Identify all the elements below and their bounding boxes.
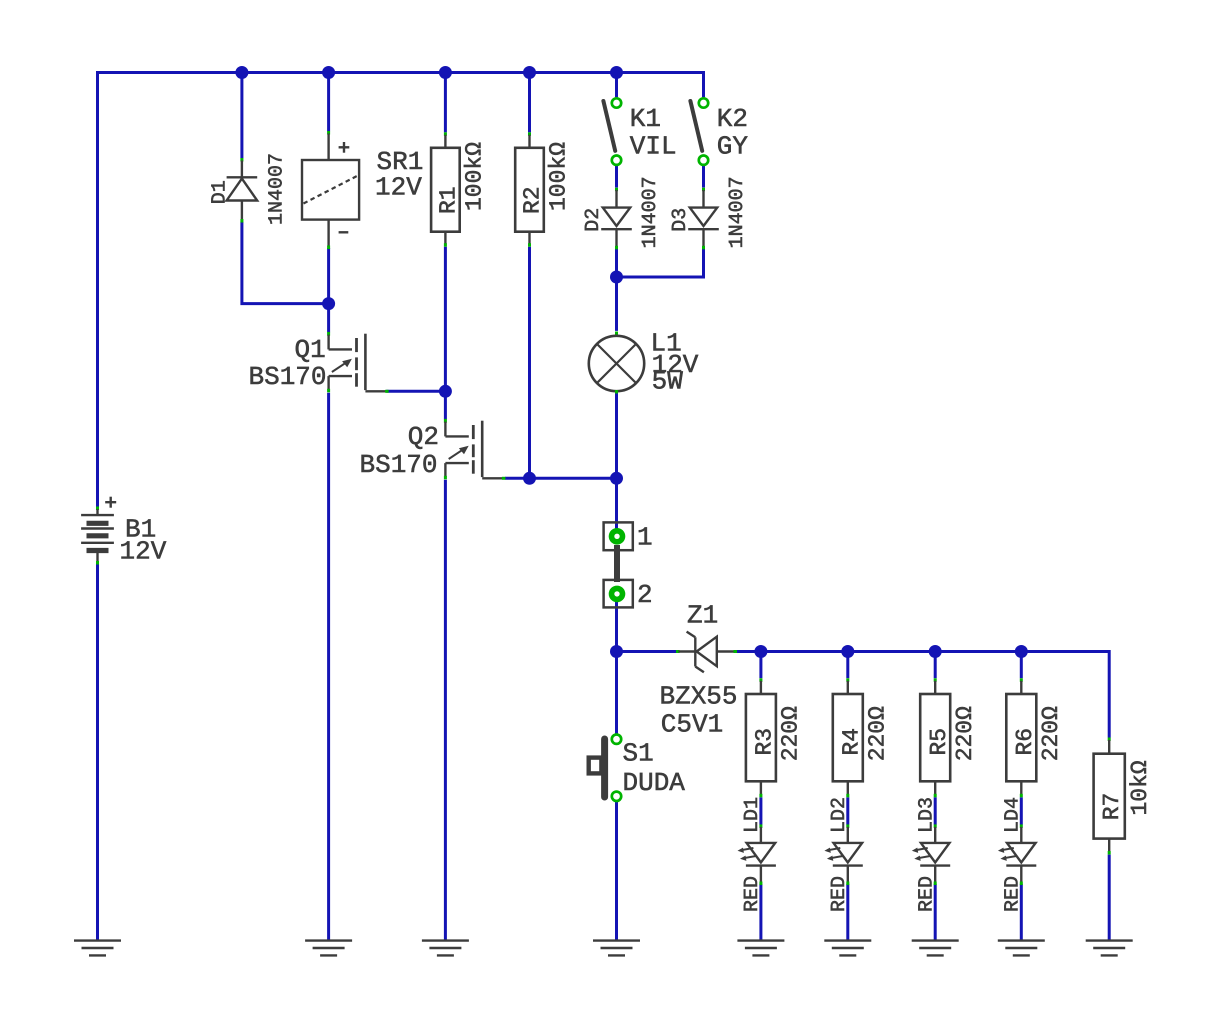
resistor R4 220 [833, 678, 891, 797]
push button S1 DUDA [589, 735, 686, 802]
svg-text:D1: D1 [209, 180, 232, 204]
wire diode D2 to node C [615, 249, 618, 331]
lamp L1 12V 5W [589, 328, 699, 396]
wire diode D3 down and left to node C [617, 249, 704, 277]
switch K2 GY [690, 98, 748, 165]
wire zener Z1 anode to LED rail [736, 650, 761, 653]
junction LED rail / R4 [841, 645, 854, 658]
svg-text:220Ω: 220Ω [778, 706, 804, 761]
wire switch K2 to diode D3 [702, 166, 705, 188]
wire resistor R5 to LED LD3 [934, 797, 937, 824]
ground 4 [593, 941, 640, 956]
junction R2 / Q2 gate net [523, 472, 536, 485]
svg-text:R2: R2 [520, 186, 546, 214]
wire LED LD1 to ground [759, 884, 762, 941]
ground 1 [74, 941, 121, 956]
terminal link bar [614, 545, 620, 582]
wire diode D1 anode down and right to relay node [242, 222, 329, 304]
svg-text:1: 1 [637, 522, 653, 552]
svg-text:R6: R6 [1012, 728, 1038, 756]
junction LED rail / R5 [929, 645, 942, 658]
resistor R7 10k [1094, 738, 1153, 855]
wire Q2 source to ground [444, 480, 447, 941]
resistor R5 220 [920, 678, 978, 797]
svg-text:2: 2 [637, 580, 653, 610]
wire resistor R1 to node A and Q2 drain [444, 247, 447, 419]
wire top rail to resistor R2 [528, 73, 531, 133]
svg-text:Q2: Q2 [408, 422, 439, 452]
svg-text:R4: R4 [838, 728, 864, 756]
wire top rail to switch K1 [615, 73, 618, 98]
wire Q1 gate to node A [386, 390, 445, 393]
ground 5 [737, 941, 784, 956]
LED LD4 RED [998, 797, 1036, 912]
junction LED rail / R6 [1015, 645, 1028, 658]
wire battery B1 minus to ground [96, 564, 99, 941]
junction node A (R1/Q1 gate/Q2 drain) [439, 385, 452, 398]
junction Z1 anode / R3 [754, 645, 767, 658]
wire switch K1 to diode D2 [615, 166, 618, 188]
wire relay SR1 minus to Q1 drain [327, 248, 330, 332]
ground 2 [305, 941, 352, 956]
svg-text:RED: RED [1001, 876, 1024, 912]
wire resistor R2 down to Q2 gate net [528, 247, 531, 479]
wire resistor R6 to LED LD4 [1020, 797, 1023, 824]
svg-text:R3: R3 [752, 728, 778, 756]
wire top rail to relay SR1 plus [327, 73, 330, 132]
resistor R1 100k [431, 132, 487, 246]
svg-text:1N4007: 1N4007 [266, 153, 289, 225]
wire resistor R4 to LED LD2 [846, 797, 849, 824]
svg-text:LD3: LD3 [915, 797, 938, 833]
junction node C (D2/D3) [610, 271, 623, 284]
ground 3 [422, 941, 469, 956]
resistor R3 220 [746, 678, 804, 797]
svg-text:1N4007: 1N4007 [639, 176, 662, 248]
terminal 2 [604, 580, 653, 610]
diode D2 1N4007 [582, 176, 662, 249]
svg-text:Z1: Z1 [687, 601, 718, 631]
transistor Q2 BS170 [360, 419, 506, 480]
svg-text:BS170: BS170 [360, 450, 438, 480]
svg-text:RED: RED [915, 876, 938, 912]
junction D1-SR1 node [322, 297, 335, 310]
wire Q1 source to ground [327, 393, 330, 941]
terminal 1 [604, 522, 653, 552]
svg-text:5W: 5W [652, 367, 684, 397]
svg-text:D2: D2 [582, 208, 605, 232]
wire LED rail to resistor R3 [759, 652, 762, 679]
wire node B to terminal 1 [615, 478, 618, 536]
svg-text:1N4007: 1N4007 [726, 176, 749, 248]
resistor R6 220 [1006, 678, 1064, 797]
wire LED LD4 to ground [1020, 884, 1023, 941]
switch K1 VIL [603, 98, 676, 165]
wire LED rail to resistor R7 column [761, 652, 1109, 738]
junction top rail / K1 [610, 66, 623, 79]
wire LED rail to resistor R6 [1020, 652, 1023, 679]
svg-text:220Ω: 220Ω [1038, 706, 1064, 761]
svg-text:GY: GY [717, 131, 749, 161]
svg-text:12V: 12V [375, 173, 422, 203]
svg-text:100kΩ: 100kΩ [462, 142, 488, 211]
junction node D (S1/Z1) [610, 645, 623, 658]
wire push button S1 to ground [615, 801, 618, 941]
wire resistor R7 to ground [1108, 855, 1111, 941]
wire top rail to resistor R1 [444, 73, 447, 133]
junction top rail / R2 [523, 66, 536, 79]
zener diode Z1 BZX55 C5V1 [660, 601, 738, 740]
svg-text:S1: S1 [623, 739, 654, 769]
svg-text:R7: R7 [1099, 793, 1125, 821]
svg-text:R5: R5 [926, 728, 952, 756]
LED LD1 RED [738, 797, 776, 912]
transistor Q1 BS170 [249, 332, 389, 392]
svg-text:Q1: Q1 [295, 335, 326, 365]
wire top power rail [98, 71, 704, 74]
wire lamp L1 to node B [615, 394, 618, 479]
diode D3 1N4007 [669, 176, 749, 249]
svg-text:BS170: BS170 [249, 362, 327, 392]
svg-text:K2: K2 [717, 104, 748, 134]
ground 8 [998, 941, 1045, 956]
svg-text:10kΩ: 10kΩ [1127, 760, 1153, 815]
LED LD3 RED [912, 797, 950, 912]
wire LED LD3 to ground [934, 884, 937, 941]
svg-text:LD1: LD1 [741, 797, 764, 833]
svg-text:K1: K1 [630, 104, 661, 134]
svg-text:RED: RED [828, 876, 851, 912]
svg-text:220Ω: 220Ω [864, 706, 890, 761]
diode D1 1N4007 [209, 153, 289, 225]
svg-text:100kΩ: 100kΩ [546, 142, 572, 211]
wire LED rail to resistor R5 [934, 652, 937, 679]
wire Q2 gate to lamp node B [505, 477, 617, 480]
wire node D to push button S1 [615, 652, 618, 735]
junction top rail / R1 [439, 66, 452, 79]
svg-text:BZX55: BZX55 [660, 681, 738, 711]
wire top rail corner to switch K2 [617, 73, 704, 98]
svg-text:R1: R1 [436, 186, 462, 214]
svg-text:DUDA: DUDA [623, 768, 686, 798]
junction top rail / SR1 [322, 66, 335, 79]
wire terminal 2 to node D [615, 594, 618, 652]
svg-text:C5V1: C5V1 [661, 710, 723, 740]
junction top rail / D1 [235, 66, 248, 79]
wire left rail from top rail to battery B1 plus [96, 71, 99, 507]
ground 6 [824, 941, 871, 956]
svg-text:LD4: LD4 [1001, 797, 1024, 833]
svg-text:VIL: VIL [630, 131, 677, 161]
resistor R2 100k [515, 132, 571, 246]
relay SR1 12V [302, 131, 423, 249]
battery B1 12V [81, 497, 167, 567]
svg-text:12V: 12V [120, 537, 167, 567]
ground 9 [1086, 941, 1133, 956]
wire resistor R3 to LED LD1 [759, 797, 762, 824]
LED LD2 RED [824, 797, 862, 912]
wire node D to zener Z1 cathode [617, 650, 678, 653]
svg-text:D3: D3 [669, 208, 692, 232]
ground 7 [912, 941, 959, 956]
svg-text:RED: RED [741, 876, 764, 912]
svg-text:220Ω: 220Ω [952, 706, 978, 761]
wire LED rail to resistor R4 [846, 652, 849, 679]
junction node B (L1/terminal) [610, 472, 623, 485]
wire top rail to diode D1 [240, 73, 243, 159]
svg-text:LD2: LD2 [828, 797, 851, 833]
wire LED LD2 to ground [846, 884, 849, 941]
